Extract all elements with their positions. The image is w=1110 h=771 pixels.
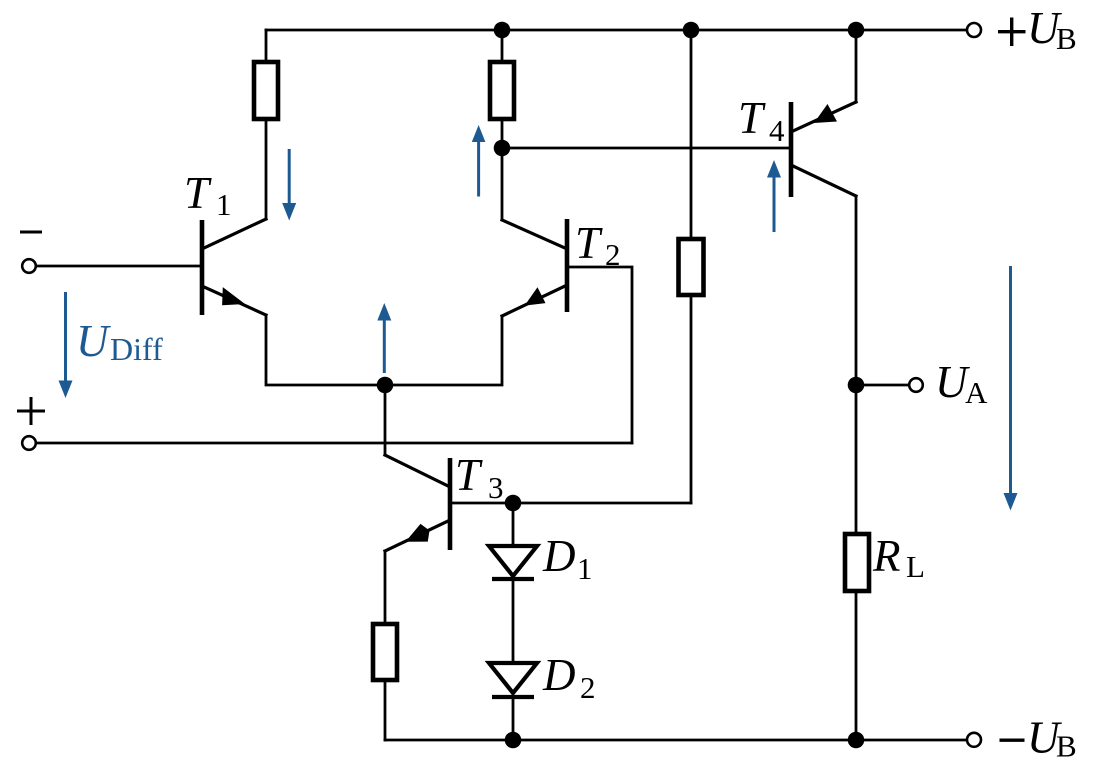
- wire top rail left corner down to R1: [265, 30, 268, 62]
- junction node common emitters: [377, 377, 394, 394]
- transistor T4: [791, 102, 837, 197]
- wire T2 emitter down and to common node: [385, 316, 502, 385]
- plus sign input: [17, 397, 45, 425]
- resistor R1: [254, 62, 278, 119]
- wire T2 collector vertical: [501, 148, 504, 220]
- wire D1 to D2: [512, 579, 515, 663]
- svg-text:D: D: [542, 531, 576, 581]
- wire T1 base input: [36, 265, 200, 268]
- wire T3 collector diagonal: [385, 455, 448, 486]
- svg-text:2: 2: [605, 237, 621, 272]
- svg-text:R: R: [872, 531, 901, 581]
- transistor T3: [406, 458, 451, 550]
- wire UA stub: [856, 384, 909, 387]
- wire R3 from top rail down: [690, 30, 693, 239]
- svg-text:Diff: Diff: [110, 331, 163, 367]
- svg-text:1: 1: [216, 187, 232, 222]
- svg-text:T: T: [184, 168, 212, 218]
- transistor T1: [202, 220, 245, 315]
- arrow common node current up: [377, 303, 391, 373]
- wire T4 emitter vertical from rail: [855, 30, 858, 102]
- svg-text:B: B: [1056, 729, 1077, 764]
- wire + input: [36, 442, 632, 445]
- minus sign input: [20, 231, 42, 234]
- wire T3 emitter down to R4: [384, 551, 387, 624]
- junction node top rail / R3: [683, 22, 700, 39]
- wire R1 bottom to T1 collector corner: [265, 119, 268, 219]
- junction node T2 collector: [494, 140, 511, 157]
- wire T4 emitter diagonal: [793, 102, 856, 131]
- wire T4 collector down to UA node: [855, 196, 858, 385]
- wire R2 bottom to node: [501, 119, 504, 148]
- label -UB: [1000, 713, 1077, 764]
- svg-text:L: L: [906, 549, 925, 584]
- terminal minus input: [22, 259, 36, 273]
- svg-text:2: 2: [580, 670, 596, 705]
- wire T2 collector diagonal: [502, 220, 565, 248]
- diode D1: [489, 546, 537, 579]
- wire T2 base to right and down to + input: [567, 267, 632, 443]
- resistor R4: [373, 624, 397, 680]
- wire T4 base horizontal: [502, 147, 789, 150]
- wire T1 emitter down and to common node: [266, 315, 385, 385]
- svg-text:T: T: [575, 218, 603, 268]
- svg-text:1: 1: [577, 551, 593, 586]
- terminal plus input: [22, 436, 36, 450]
- diode D2: [489, 663, 537, 697]
- terminal +UB: [967, 23, 981, 37]
- svg-text:T: T: [455, 450, 483, 500]
- junction node T3 base / D1: [505, 495, 522, 512]
- svg-text:U: U: [76, 316, 111, 366]
- svg-text:D: D: [542, 650, 576, 700]
- transistor T2: [525, 219, 567, 312]
- wire common node down to T3 collector: [384, 385, 387, 455]
- svg-text:4: 4: [769, 113, 785, 148]
- junction node top rail / R2: [494, 22, 511, 39]
- arrow UDiff down: [59, 292, 73, 398]
- resistor R2: [490, 62, 514, 119]
- wire T1 collector diagonal: [204, 219, 266, 248]
- wire RL bottom to rail: [855, 591, 858, 740]
- wire T2 emitter diagonal: [502, 286, 565, 316]
- svg-text:T: T: [738, 93, 766, 143]
- arrow output current down long: [1004, 266, 1018, 511]
- arrow T4 current up: [767, 160, 781, 232]
- wire UA node down to RL: [855, 385, 858, 534]
- junction node UA: [848, 377, 865, 394]
- wire T4 collector diagonal: [793, 166, 856, 196]
- wire T1 emitter diagonal: [204, 287, 266, 315]
- terminal UA: [909, 378, 923, 392]
- wire T3 base horizontal: [452, 502, 691, 505]
- wire D2 to bottom rail: [512, 697, 515, 740]
- label UDiff: [76, 316, 163, 367]
- terminal -UB: [967, 733, 981, 747]
- junction node top rail / T4: [848, 22, 865, 39]
- resistor RL: [845, 534, 869, 591]
- wire R4 bottom to rail: [384, 680, 387, 740]
- wire R3 bottom down to T3 base level: [690, 295, 693, 503]
- wire T3 base node down to D1: [512, 503, 515, 546]
- svg-text:3: 3: [488, 470, 504, 505]
- wire top +UB rail: [266, 29, 967, 32]
- svg-text:B: B: [1056, 21, 1077, 56]
- wire bottom -UB rail: [385, 739, 966, 742]
- wire R2 top: [501, 30, 504, 62]
- wire T3 emitter diagonal: [385, 521, 448, 551]
- junction node D2 / bottom rail: [505, 732, 522, 749]
- svg-text:A: A: [965, 375, 988, 410]
- label +UB: [998, 3, 1077, 56]
- resistor R3: [679, 239, 704, 295]
- arrow T1 current down: [282, 149, 296, 221]
- arrow R2 current up: [472, 125, 486, 197]
- junction node RL / bottom rail: [848, 732, 865, 749]
